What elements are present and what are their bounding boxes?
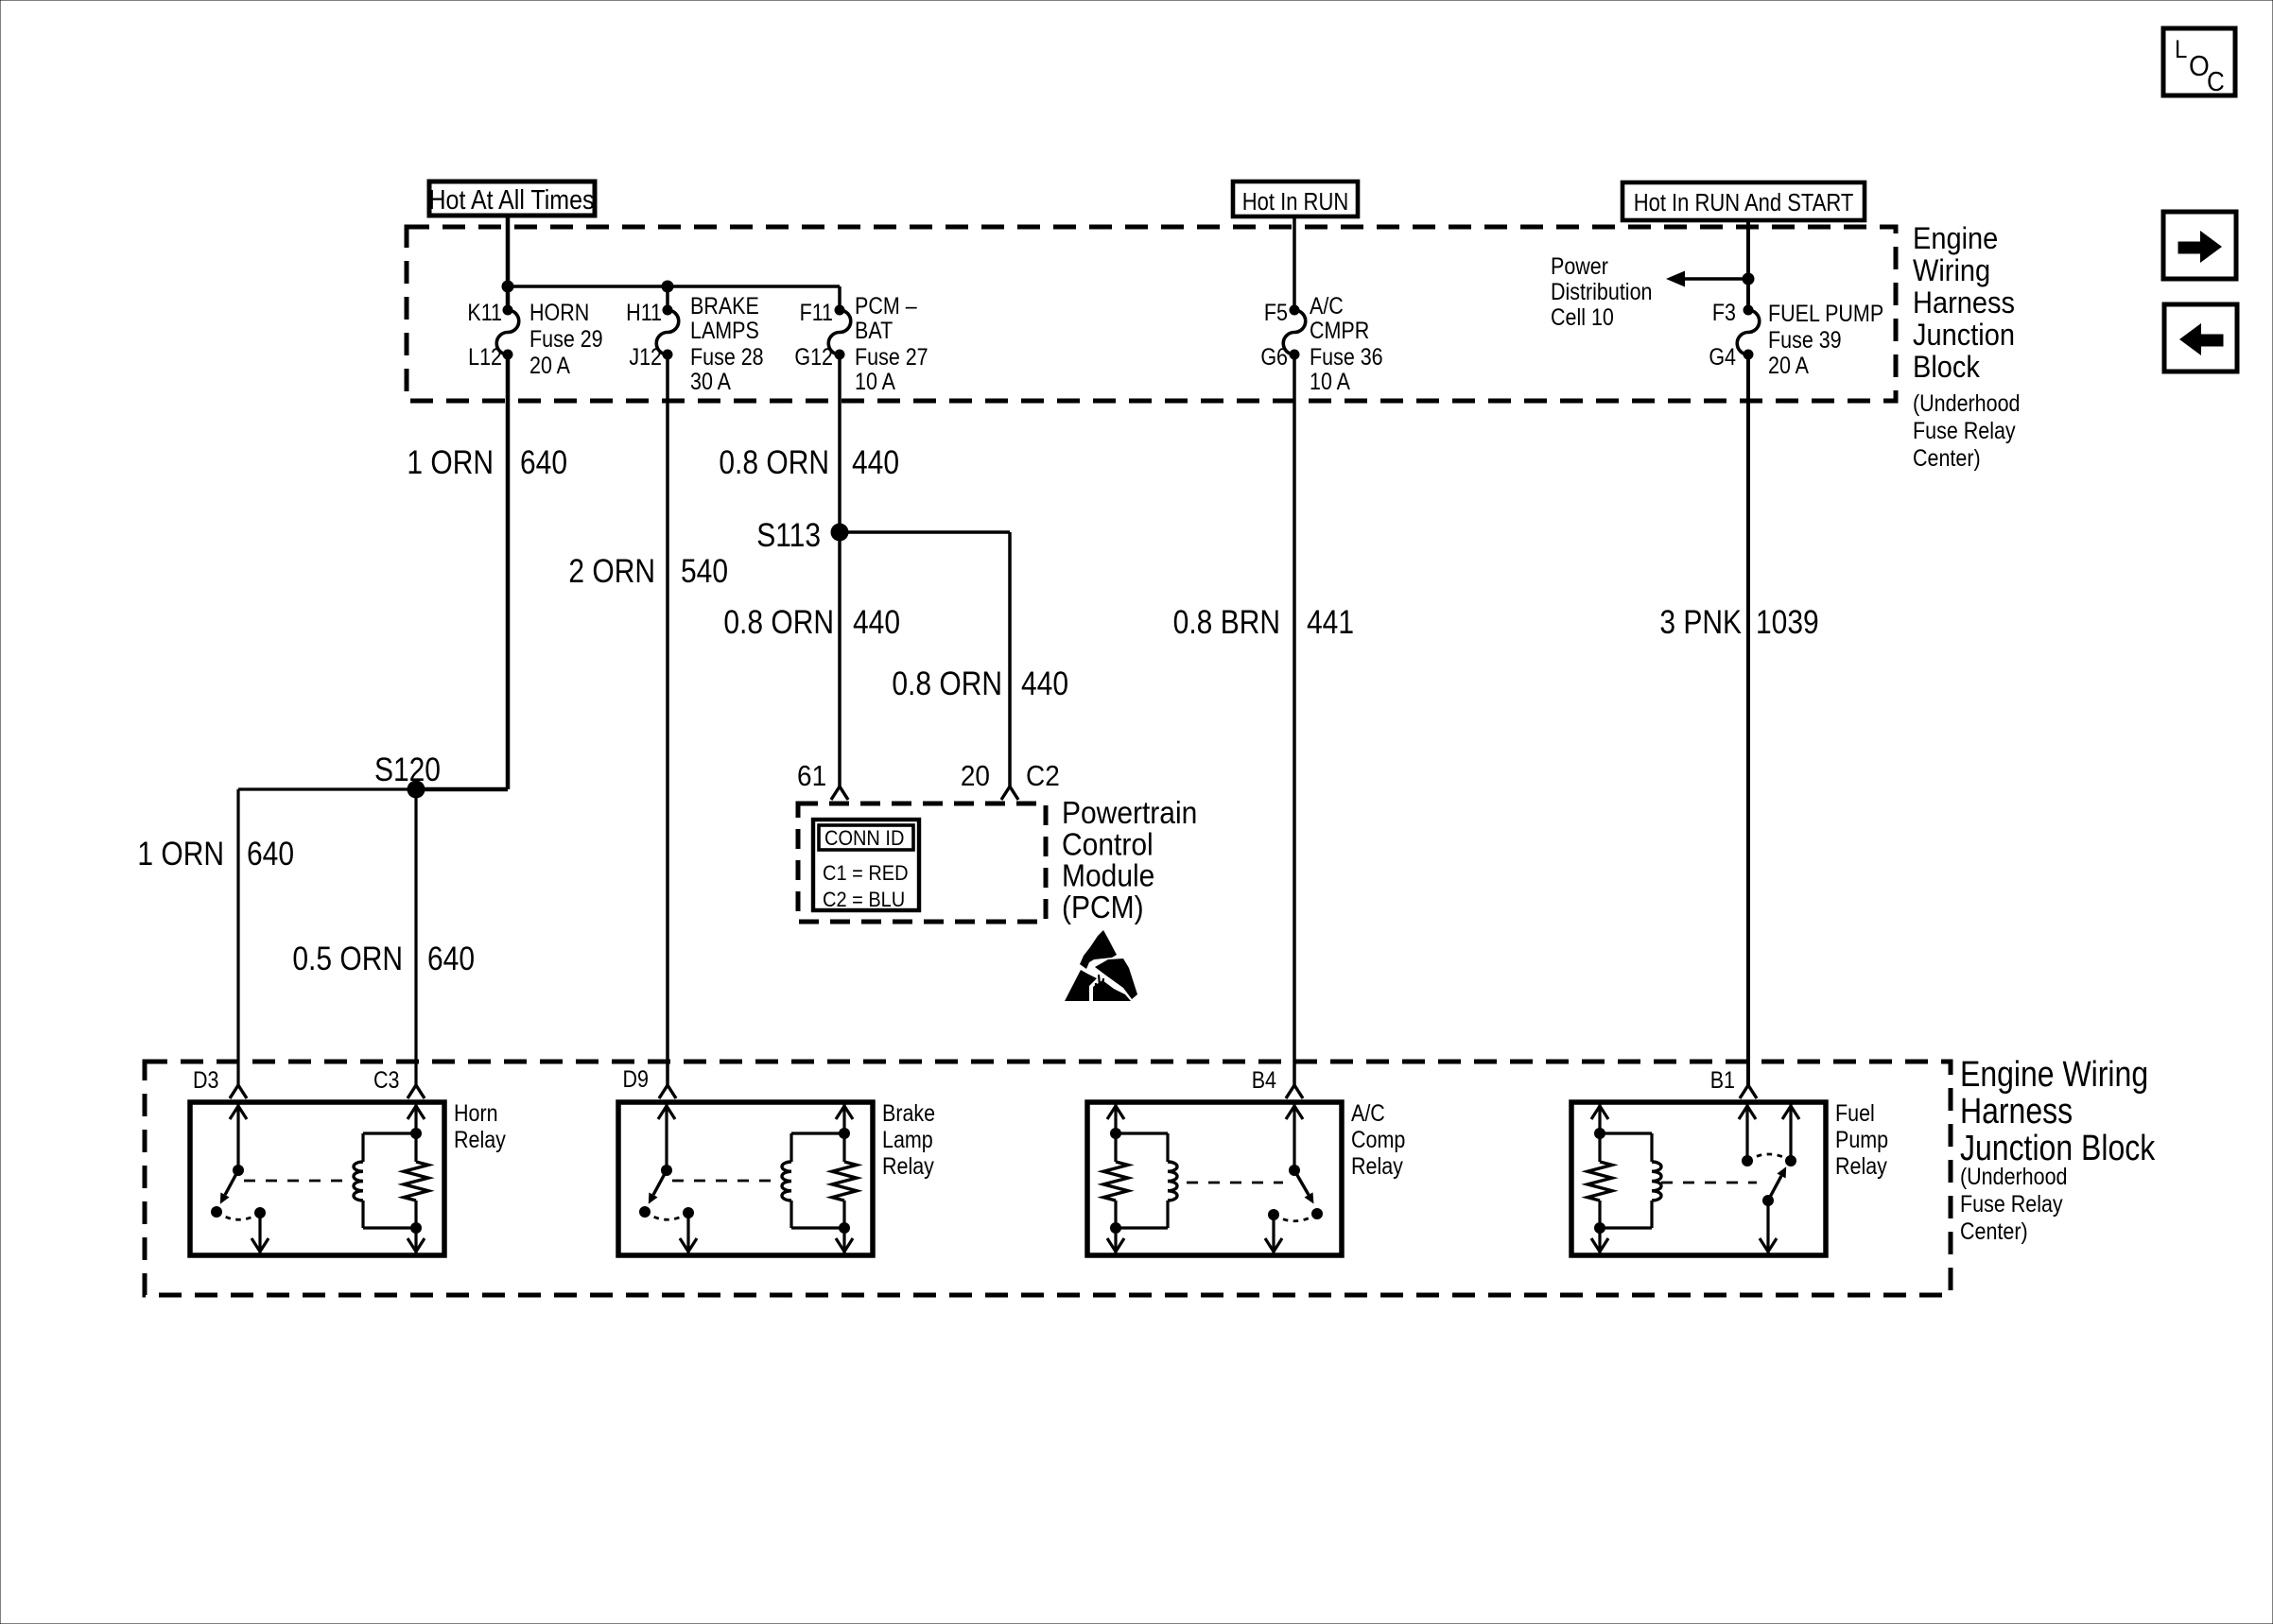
svg-text:Comp: Comp: [1351, 1127, 1405, 1153]
relay K: Horn Relay box: [190, 1102, 444, 1255]
svg-text:A/C: A/C: [1310, 293, 1344, 320]
svg-text:C2 = BLU: C2 = BLU: [823, 889, 905, 911]
wire: 0.8 ORN 440 from G12 to S113 and PCM pin 61: [838, 354, 842, 786]
svg-text:Center): Center): [1960, 1218, 2028, 1245]
Fuel Pump relay coil and resistor: [1588, 1102, 1661, 1255]
Brake Lamp relay coil and resistor: [782, 1102, 857, 1255]
splice S120: [408, 781, 425, 799]
svg-text:Wiring: Wiring: [1913, 252, 1990, 287]
svg-text:Horn: Horn: [454, 1100, 498, 1127]
label: A/C CMPR Fuse 36 10 A: [1310, 293, 1383, 395]
svg-text:LAMPS: LAMPS: [690, 318, 759, 344]
svg-text:J12: J12: [629, 344, 662, 371]
label box: Hot In RUN: [1233, 181, 1358, 216]
node: bus junction at Brake fuse: [662, 281, 674, 293]
svg-text:(PCM): (PCM): [1062, 890, 1144, 925]
svg-text:Fuse 36: Fuse 36: [1310, 344, 1383, 371]
svg-text:D3: D3: [193, 1067, 218, 1094]
svg-text:540: 540: [681, 553, 728, 590]
pin 61 (PCM C2): [797, 760, 848, 800]
svg-text:Cell 10: Cell 10: [1551, 304, 1614, 331]
svg-text:F5: F5: [1264, 300, 1288, 326]
CONN ID table: [813, 820, 919, 911]
label: 1 ORN 640 (upper): [407, 444, 567, 481]
label: BRAKE LAMPS Fuse 28 30 A: [690, 293, 764, 395]
svg-text:20 A: 20 A: [1768, 353, 1809, 379]
svg-text:L12: L12: [468, 344, 502, 371]
wire: bus to fuses: [508, 285, 840, 288]
A/C relay switch: [1187, 1102, 1323, 1255]
svg-text:1039: 1039: [1756, 604, 1819, 641]
svg-text:0.8 ORN: 0.8 ORN: [723, 604, 834, 641]
svg-text:(Underhood: (Underhood: [1960, 1164, 2067, 1190]
svg-text:2 ORN: 2 ORN: [568, 553, 655, 590]
svg-text:3 PNK: 3 PNK: [1659, 604, 1742, 641]
Horn relay coil and resistor: [354, 1102, 428, 1255]
label: 0.8 BRN 441: [1173, 604, 1354, 641]
back arrow box: [2164, 304, 2237, 371]
label: 0.8 ORN 440 (row 3): [892, 665, 1068, 702]
svg-text:Fuse Relay: Fuse Relay: [1913, 418, 2016, 444]
wire: Hot In RUN And START feed: [1746, 220, 1750, 310]
LOC legend box: [2163, 28, 2235, 96]
svg-text:Pump: Pump: [1835, 1127, 1888, 1153]
label: 0.8 ORN 440 (row 1): [719, 444, 899, 481]
wire: 0.8 ORN 440 from S113 to PCM pin 20: [840, 530, 1010, 534]
svg-text:G6: G6: [1260, 344, 1288, 371]
svg-text:Relay: Relay: [1835, 1153, 1887, 1180]
svg-text:BAT: BAT: [855, 318, 893, 344]
svg-text:20 A: 20 A: [529, 353, 570, 379]
node: junction to Power Distribution: [1743, 273, 1755, 285]
svg-text:Fuse 27: Fuse 27: [855, 344, 928, 371]
ESD sensitivity symbol: [1065, 930, 1137, 1001]
svg-text:Harness: Harness: [1913, 285, 2015, 320]
wire: 0.8 BRN 441 from G6 to A/C relay B4: [1293, 354, 1296, 1085]
wire: 1 ORN 640 from L12 to S120: [506, 354, 511, 789]
svg-text:Harness: Harness: [1960, 1091, 2073, 1131]
Powertrain Control Module dashed box: [798, 803, 1046, 922]
svg-text:CONN ID: CONN ID: [824, 827, 904, 850]
svg-text:(Underhood: (Underhood: [1913, 390, 2020, 417]
svg-text:C: C: [2207, 66, 2225, 96]
svg-text:Engine Wiring: Engine Wiring: [1960, 1054, 2148, 1094]
svg-text:Hot In RUN: Hot In RUN: [1242, 189, 1348, 216]
label: Horn Relay: [454, 1100, 506, 1153]
wire: 1 ORN 640 from S120 to Horn relay D3: [238, 787, 416, 790]
svg-text:PCM –: PCM –: [855, 293, 917, 320]
svg-text:C3: C3: [373, 1067, 399, 1094]
svg-text:Control: Control: [1062, 826, 1154, 862]
relay K: Fuel Pump Relay box: [1571, 1102, 1826, 1255]
wire: 0.5 ORN 640 from S120 to Horn relay C3: [414, 789, 417, 1085]
fuse 28 BRAKE LAMPS 30 A (H11/J12): [656, 305, 679, 360]
wire: Hot At All Times feed: [506, 216, 511, 286]
svg-text:G12: G12: [794, 344, 833, 371]
svg-text:Junction Block: Junction Block: [1960, 1128, 2156, 1167]
svg-text:Relay: Relay: [1351, 1153, 1403, 1180]
svg-text:CMPR: CMPR: [1310, 318, 1369, 344]
svg-text:Powertrain: Powertrain: [1062, 795, 1197, 831]
svg-text:30 A: 30 A: [690, 369, 731, 395]
label: 1 ORN 640 (lower): [137, 836, 294, 872]
Engine Wiring Harness Junction Block (top) dashed boundary: [407, 227, 1896, 401]
pin B4: [1252, 1067, 1303, 1098]
svg-text:Fuse 28: Fuse 28: [690, 344, 764, 371]
wire: 2 ORN 540 from J12 to Brake Lamp relay D9: [666, 354, 669, 1085]
svg-text:S120: S120: [374, 752, 441, 788]
svg-text:Hot In RUN And START: Hot In RUN And START: [1634, 190, 1854, 217]
label: PCM-BAT Fuse 27 10 A: [855, 293, 928, 395]
label: Powertrain Control Module (PCM): [1062, 795, 1197, 925]
svg-text:Fuse Relay: Fuse Relay: [1960, 1191, 2063, 1218]
svg-text:1 ORN: 1 ORN: [407, 444, 494, 481]
svg-text:D9: D9: [623, 1066, 649, 1093]
svg-text:1 ORN: 1 ORN: [137, 836, 224, 872]
svg-text:440: 440: [1021, 665, 1068, 702]
label: Fuel Pump Relay: [1835, 1100, 1888, 1180]
svg-text:FUEL PUMP: FUEL PUMP: [1768, 301, 1883, 327]
wire: arrow to Power Distribution Cell 10: [1685, 277, 1748, 281]
fuse 36 A/C CMPR 10 A (F5/G6): [1283, 305, 1306, 360]
label box: Hot In RUN And START: [1622, 182, 1865, 220]
splice S113: [831, 524, 849, 542]
svg-text:0.5 ORN: 0.5 ORN: [292, 941, 403, 977]
svg-text:H11: H11: [626, 300, 662, 326]
label: Engine Wiring Harness Junction Block (top right): [1913, 220, 2020, 471]
Engine Wiring Harness Junction Block (bottom) dashed boundary: [145, 1062, 1951, 1295]
label: Engine Wiring Harness Junction Block (bottom right): [1960, 1054, 2156, 1244]
svg-text:440: 440: [852, 444, 899, 481]
relay K: Brake Lamp Relay box: [618, 1102, 873, 1255]
svg-text:F11: F11: [800, 300, 833, 326]
svg-text:Relay: Relay: [882, 1153, 934, 1180]
svg-text:K11: K11: [467, 300, 502, 326]
svg-text:640: 640: [520, 444, 567, 481]
svg-text:640: 640: [247, 836, 294, 872]
svg-text:10 A: 10 A: [1310, 369, 1350, 395]
label: 2 ORN 540: [568, 553, 728, 590]
fuse 39 FUEL PUMP 20 A (F3/G4): [1737, 305, 1760, 360]
svg-text:640: 640: [427, 941, 475, 977]
svg-text:BRAKE: BRAKE: [690, 293, 759, 320]
svg-text:Brake: Brake: [882, 1100, 935, 1127]
svg-text:Block: Block: [1913, 349, 1980, 384]
svg-text:G4: G4: [1709, 344, 1736, 371]
label: Power Distribution Cell 10: [1551, 253, 1652, 331]
svg-text:441: 441: [1307, 604, 1354, 641]
svg-text:440: 440: [853, 604, 900, 641]
pin 20 (PCM C2): [961, 760, 1018, 800]
Brake Lamp relay switch: [639, 1102, 774, 1255]
svg-text:Center): Center): [1913, 445, 1981, 472]
svg-text:A/C: A/C: [1351, 1100, 1385, 1127]
relay K: A/C Comp Relay box: [1087, 1102, 1342, 1255]
svg-text:F3: F3: [1712, 300, 1736, 326]
svg-text:Fuse 29: Fuse 29: [529, 326, 603, 353]
label: 0.8 ORN 440 (row 2): [723, 604, 900, 641]
Fuel Pump relay switch: [1661, 1102, 1799, 1255]
svg-text:Engine: Engine: [1913, 220, 1998, 255]
svg-text:Hot At All Times: Hot At All Times: [429, 183, 595, 215]
wire: 3 PNK 1039 from G4 to Fuel Pump relay B1: [1746, 354, 1750, 1085]
svg-text:Distribution: Distribution: [1551, 279, 1652, 305]
svg-text:Relay: Relay: [454, 1127, 506, 1153]
wire: Hot In RUN feed: [1293, 216, 1296, 310]
svg-text:B1: B1: [1710, 1067, 1735, 1094]
svg-text:Lamp: Lamp: [882, 1127, 933, 1153]
svg-text:Module: Module: [1062, 857, 1154, 893]
fuse 27 PCM-BAT 10 A (F11/G12): [828, 305, 851, 360]
pin C3: [373, 1067, 425, 1098]
svg-text:HORN: HORN: [529, 300, 589, 326]
svg-text:C2: C2: [1026, 760, 1060, 793]
pin D3: [193, 1067, 247, 1098]
svg-text:0.8 BRN: 0.8 BRN: [1173, 604, 1280, 641]
forward arrow box: [2163, 212, 2236, 279]
label: 3 PNK 1039: [1659, 604, 1818, 641]
label: FUEL PUMP Fuse 39 20 A: [1768, 301, 1883, 379]
Horn relay switch: [211, 1102, 346, 1255]
svg-text:61: 61: [797, 760, 826, 793]
pin D9: [623, 1066, 676, 1098]
label: 0.5 ORN 640: [292, 941, 475, 977]
svg-text:10 A: 10 A: [855, 369, 895, 395]
label: A/C Comp Relay: [1351, 1100, 1405, 1180]
svg-text:S113: S113: [756, 517, 821, 554]
svg-text:0.8 ORN: 0.8 ORN: [892, 665, 1002, 702]
label: Brake Lamp Relay: [882, 1100, 935, 1180]
fuse 29 HORN 20 A (K11/L12): [496, 305, 519, 360]
svg-text:Junction: Junction: [1913, 317, 2015, 352]
label box: Hot At All Times: [429, 181, 595, 216]
pin B1: [1710, 1067, 1757, 1098]
A/C relay coil and resistor: [1103, 1102, 1177, 1255]
svg-text:0.8 ORN: 0.8 ORN: [719, 444, 829, 481]
svg-text:C1 = RED: C1 = RED: [823, 862, 909, 885]
node: bus junction at Horn fuse: [502, 281, 514, 293]
label: HORN Fuse 29 20 A: [529, 300, 603, 379]
svg-text:Fuel: Fuel: [1835, 1100, 1875, 1127]
svg-text:Power: Power: [1551, 253, 1608, 280]
svg-text:B4: B4: [1252, 1067, 1276, 1094]
svg-text:20: 20: [961, 760, 990, 793]
svg-text:Fuse 39: Fuse 39: [1768, 327, 1842, 354]
svg-text:L: L: [2175, 36, 2187, 63]
